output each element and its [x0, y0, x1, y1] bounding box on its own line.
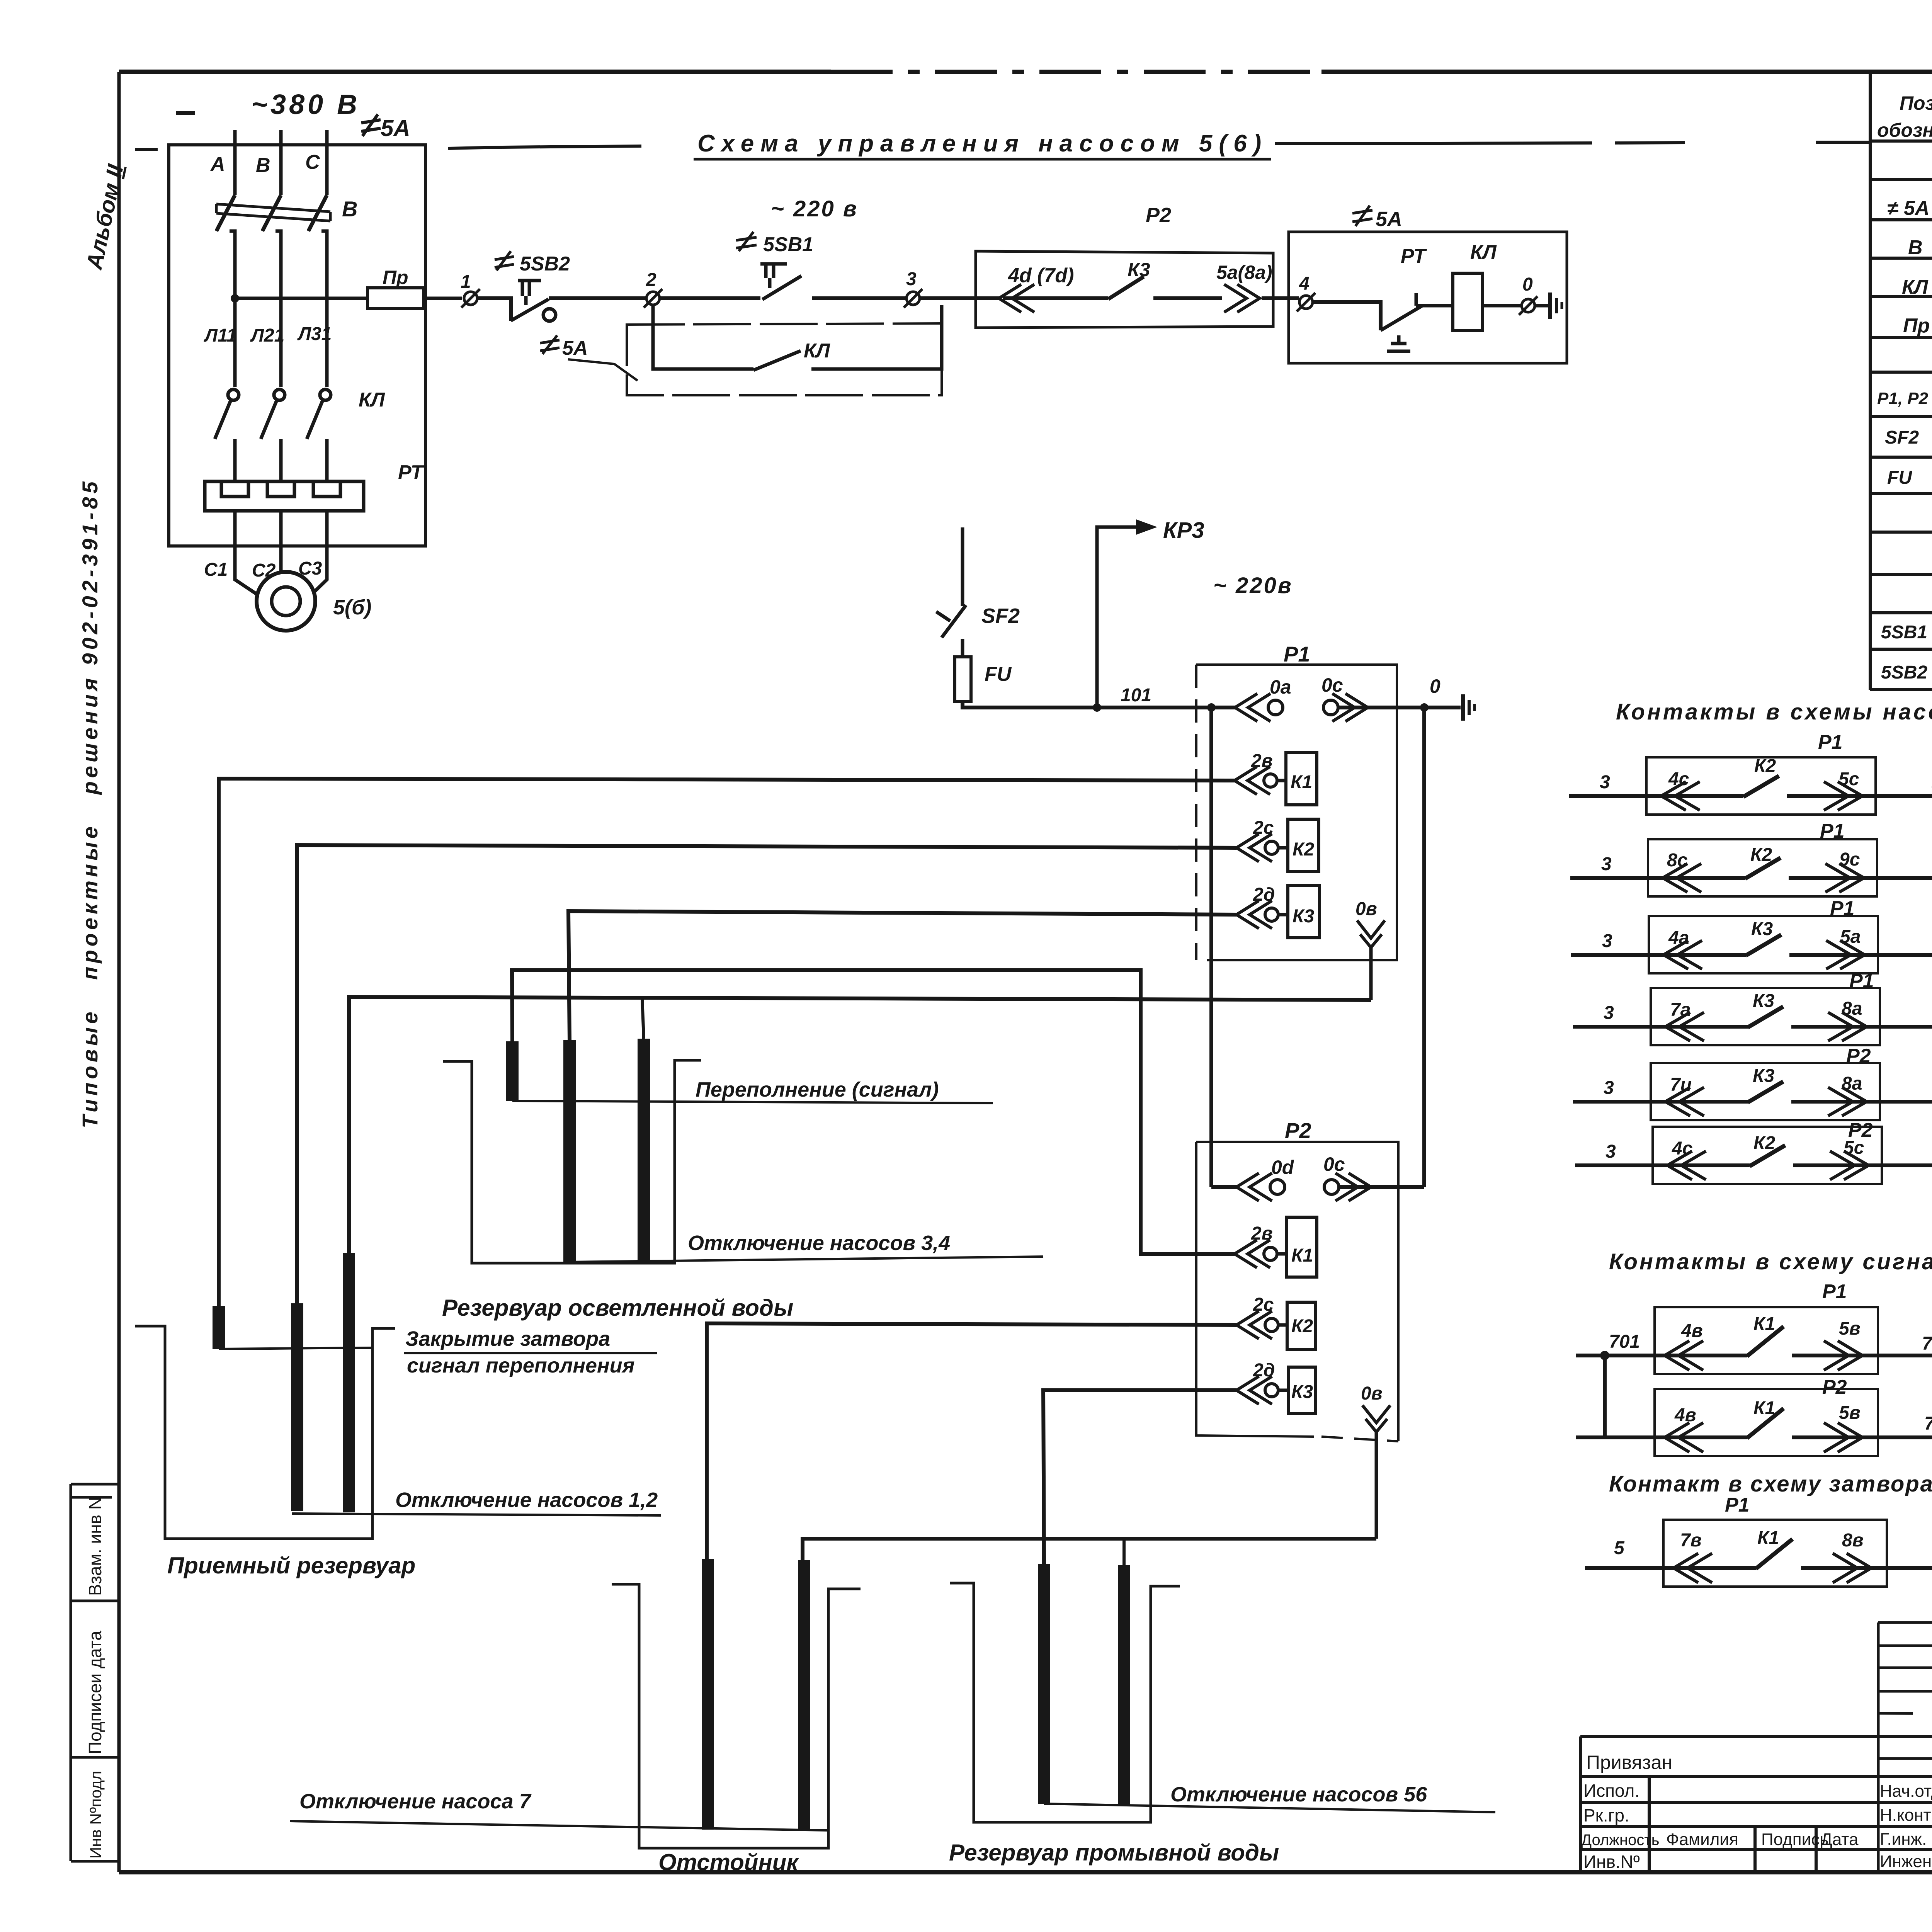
wire L5: electrodes P3,E3 to 0в(Р1) — [349, 997, 1371, 1253]
svg-text:4d (7d): 4d (7d) — [1008, 264, 1074, 287]
svg-text:К1: К1 — [1753, 1398, 1775, 1418]
svg-text:0с: 0с — [1321, 674, 1343, 696]
Р1 relay К2 — [1236, 834, 1288, 862]
row4 labels — [1604, 970, 1932, 1025]
ground (regulator) — [1463, 694, 1475, 721]
svg-text:0в: 0в — [1361, 1383, 1383, 1404]
svg-text:2в: 2в — [1251, 1223, 1273, 1244]
svg-text:Р2: Р2 — [1822, 1376, 1847, 1398]
svg-text:5в: 5в — [1839, 1403, 1861, 1423]
relay К2 (Р1) coil — [1288, 819, 1319, 871]
svg-text:сигнал переполнения: сигнал переполнения — [407, 1354, 634, 1377]
svg-text:К1: К1 — [1753, 1314, 1775, 1334]
wires РТ to motor — [235, 511, 327, 595]
svg-text:4в: 4в — [1674, 1405, 1696, 1425]
relay К2 (Р2) coil — [1287, 1302, 1316, 1349]
svg-text:Р1: Р1 — [1830, 897, 1855, 920]
svg-text:Инв Nºподл: Инв Nºподл — [87, 1771, 105, 1859]
contact row 4 (Р1 К3 7а-8а) — [1573, 988, 1932, 1045]
level line Переполнение — [512, 1101, 993, 1103]
svg-text:К3: К3 — [1753, 991, 1775, 1011]
svg-text:Переполнение (сигнал): Переполнение (сигнал) — [696, 1078, 939, 1101]
signal row 1 (Р1 К1 4в-5в) — [1576, 1307, 1932, 1374]
Р2 relay К2 — [1236, 1311, 1287, 1339]
svg-text:0d: 0d — [1271, 1156, 1294, 1178]
svg-text:3: 3 — [1605, 1141, 1616, 1162]
svg-text:5с: 5с — [1838, 769, 1859, 789]
КР3 arrow — [1097, 519, 1157, 707]
svg-text:5а: 5а — [1840, 927, 1861, 947]
wire: O1 to К2(Р2) — [707, 1323, 1236, 1559]
svg-text:0в: 0в — [1355, 899, 1377, 919]
svg-text:Инжен.: Инжен. — [1880, 1852, 1932, 1871]
#5A contactor panel box — [1289, 232, 1567, 363]
wire 0в(Р1) riser to electrode net — [1369, 947, 1373, 1000]
svg-text:3: 3 — [1601, 854, 1612, 874]
wire 701 branch down — [1605, 1355, 1655, 1437]
net 0 vertical down to Р2 — [1422, 707, 1426, 1187]
wire coil to node 0 — [1483, 304, 1521, 308]
left margin stamp boxes — [71, 1484, 119, 1861]
fuse Пр — [367, 288, 423, 309]
tank Резервуар осветленной воды — [443, 1060, 701, 1263]
svg-text:КЛ: КЛ — [359, 389, 385, 411]
phase C wire — [325, 130, 329, 195]
relay К3 (Р1) coil — [1288, 886, 1320, 938]
svg-text:Отстойник: Отстойник — [658, 1849, 799, 1875]
title block grid — [1580, 1621, 1932, 1872]
level line Отключение насоса 7 — [290, 1821, 828, 1830]
wire L4: electrode E1 to К1(Р2) — [512, 970, 1235, 1254]
svg-text:К3: К3 — [1128, 259, 1150, 281]
node 3 terminal — [904, 289, 922, 308]
svg-text:К3: К3 — [1293, 906, 1315, 927]
svg-text:~ 220 в: ~ 220 в — [771, 196, 858, 221]
electrode E1 — [506, 1041, 519, 1101]
svg-text:КЛ: КЛ — [1902, 276, 1929, 298]
svg-text:3: 3 — [1604, 1003, 1614, 1023]
svg-text:Испол.: Испол. — [1583, 1781, 1639, 1801]
Р1 contact 0с — [1323, 700, 1338, 715]
svg-text:5(б): 5(б) — [333, 596, 371, 619]
electrode E2 — [563, 1040, 576, 1262]
signal row1 labels — [1609, 1281, 1932, 1354]
svg-text:3: 3 — [906, 269, 917, 289]
svg-text:≠ 5А: ≠ 5А — [1887, 197, 1929, 219]
phase A wire — [233, 130, 237, 195]
svg-text:8а: 8а — [1842, 1073, 1862, 1094]
wire Р2 0с to net 0 — [1339, 1185, 1424, 1189]
svg-text:Р1: Р1 — [1822, 1281, 1847, 1303]
panel boundary dash-dot line left segment — [502, 146, 641, 147]
svg-text:К2: К2 — [1750, 845, 1772, 865]
svg-text:К1: К1 — [1291, 772, 1312, 793]
svg-text:3: 3 — [1600, 772, 1610, 793]
wire FU to node 101 and on to Р1 — [963, 701, 1238, 707]
P2 permissive contact box — [976, 251, 1273, 328]
level line Отключение насосов 5,6 — [1044, 1804, 1495, 1812]
switch SF2 — [936, 527, 966, 657]
svg-text:С1: С1 — [204, 560, 228, 580]
tank Приемный резервуар — [135, 1326, 395, 1539]
svg-text:7в: 7в — [1680, 1530, 1702, 1551]
svg-text:101: 101 — [1121, 685, 1151, 706]
svg-text:Р2: Р2 — [1846, 1045, 1871, 1067]
phase B wire — [279, 130, 283, 195]
row2 labels — [1601, 820, 1932, 878]
tank Отстойник — [612, 1584, 861, 1848]
svg-text:Л11: Л11 — [204, 325, 237, 346]
breaker B: three blades — [216, 195, 327, 231]
net 101 vertical down inside Р1/Р2 — [1209, 707, 1213, 1187]
svg-text:5SВ2: 5SВ2 — [1881, 662, 1927, 683]
node 0 terminal (control) — [1519, 296, 1537, 315]
svg-text:Подписеи дата: Подписеи дата — [85, 1631, 105, 1754]
Р1 contact 0в — [1357, 920, 1385, 947]
node 4 terminal — [1297, 293, 1315, 311]
svg-text:SF2: SF2 — [1885, 427, 1919, 448]
Р2 contact 0d — [1236, 1173, 1272, 1201]
svg-text:К3: К3 — [1291, 1382, 1313, 1402]
svg-text:0с: 0с — [1323, 1153, 1345, 1175]
wire L1: electrode P1 to К1(Р1) — [219, 779, 1235, 1306]
svg-text:обознач: обознач — [1877, 119, 1932, 141]
title underline — [694, 158, 1271, 161]
svg-text:Рк.гр.: Рк.гр. — [1583, 1805, 1629, 1825]
Р1 relay К1: chevron+circle — [1235, 767, 1286, 794]
label #5SB2 — [495, 251, 570, 275]
svg-text:0: 0 — [1522, 274, 1533, 295]
electrode O2 — [798, 1560, 810, 1830]
svg-text:Отключение насосов 56: Отключение насосов 56 — [1170, 1783, 1427, 1806]
Р1 contact 0а — [1235, 694, 1270, 721]
contact row 5 (Р2 К3 7и-8а) — [1573, 1063, 1932, 1120]
label #5A top of switchboard box — [361, 114, 410, 141]
svg-text:Р1: Р1 — [1725, 1494, 1750, 1516]
svg-text:733: 733 — [1924, 1413, 1932, 1434]
boundary dash left of box — [135, 148, 158, 151]
svg-text:Поз: Поз — [1900, 92, 1932, 114]
svg-text:5А: 5А — [562, 337, 588, 359]
svg-text:Р1: Р1 — [1820, 820, 1845, 842]
wire P2 box to node 4 — [1262, 296, 1299, 300]
P2 contact: left chevron — [999, 284, 1034, 312]
svg-text:8в: 8в — [1842, 1530, 1864, 1551]
svg-text:731: 731 — [1922, 1333, 1932, 1354]
svg-text:Р1, Р2: Р1, Р2 — [1877, 389, 1929, 408]
svg-text:4с: 4с — [1672, 1138, 1692, 1159]
svg-text:К2: К2 — [1753, 1133, 1776, 1153]
svg-text:2: 2 — [646, 270, 656, 290]
wire fuse to terminal 1 — [423, 297, 462, 300]
svg-text:Резервуар осветленной воды: Резервуар осветленной воды — [442, 1295, 793, 1321]
wire 0с to node 0 and ground — [1338, 706, 1461, 709]
relay К3 (Р2) coil — [1289, 1367, 1316, 1413]
svg-text:701: 701 — [1609, 1332, 1640, 1352]
svg-text:0а: 0а — [1270, 676, 1291, 698]
svg-text:4с: 4с — [1668, 769, 1689, 789]
svg-text:4а: 4а — [1668, 928, 1689, 948]
svg-text:КЛ: КЛ — [1470, 241, 1497, 264]
svg-text:0: 0 — [1430, 675, 1440, 697]
svg-text:Нач.отд: Нач.отд — [1880, 1782, 1932, 1801]
wire R2 stub — [1122, 1539, 1126, 1565]
wire node3 to P2 permissive box — [920, 296, 1001, 300]
switchboard box (Щит) — [169, 145, 425, 546]
svg-text:9с: 9с — [1839, 849, 1860, 870]
КЛ self-hold box (dash) — [627, 323, 942, 395]
svg-text:3: 3 — [1604, 1078, 1614, 1098]
svg-text:К3: К3 — [1751, 919, 1773, 939]
svg-text:Отключение насоса 7: Отключение насоса 7 — [299, 1790, 532, 1813]
revision grid — [1878, 1622, 1932, 1872]
signal row 2 (Р2 К1 4в-5в) — [1576, 1389, 1932, 1456]
relay К1 (Р1) coil — [1286, 753, 1317, 805]
svg-text:Дата: Дата — [1821, 1830, 1859, 1849]
svg-text:SF2: SF2 — [981, 604, 1020, 628]
svg-text:5с: 5с — [1844, 1138, 1864, 1158]
electrode R2 — [1118, 1565, 1130, 1804]
row1 labels — [1600, 731, 1932, 794]
wire node4 to РТ contact — [1313, 302, 1381, 330]
wire E3 stub to L5 — [642, 998, 644, 1039]
svg-text:Н.контр: Н.контр — [1880, 1806, 1932, 1825]
svg-text:Контакт в схему затвора 8: Контакт в схему затвора 8 — [1609, 1471, 1932, 1497]
svg-text:FU: FU — [985, 663, 1012, 685]
thermal relay РТ heaters — [205, 481, 364, 511]
svg-text:Инв.Nº: Инв.Nº — [1583, 1852, 1640, 1872]
svg-text:Контакты в схему сигнализации: Контакты в схему сигнализации — [1609, 1249, 1932, 1274]
contact row 1 (Р1 К2 4с-5с) — [1569, 757, 1932, 815]
row5 labels — [1604, 1045, 1932, 1100]
label #5A (contactor panel) — [1352, 206, 1402, 231]
svg-text:8с: 8с — [1667, 850, 1687, 871]
wire 5SB1 to node 3 — [812, 296, 906, 300]
junction dot КР3 branch — [1093, 703, 1101, 712]
svg-text:5: 5 — [1614, 1538, 1625, 1558]
РТ thermal contact with manual release — [1381, 293, 1447, 351]
svg-text:Резервуар промывной воды: Резервуар промывной воды — [949, 1840, 1279, 1866]
electrode P1 — [213, 1306, 225, 1349]
svg-text:К1: К1 — [1291, 1245, 1313, 1266]
svg-text:КЛ: КЛ — [804, 340, 830, 362]
svg-text:5а(8а): 5а(8а) — [1216, 262, 1272, 283]
svg-text:К2: К2 — [1291, 1316, 1313, 1337]
svg-text:С2: С2 — [252, 560, 276, 581]
gate contact row (Р1 К1 7в-8в) — [1585, 1520, 1932, 1587]
level line Отключение насосов 3,4 — [570, 1257, 1043, 1262]
signoff Нач.отд Иванченко — [1880, 1781, 1932, 1801]
Р2 regulator box — [1196, 1142, 1398, 1441]
svg-text:А: А — [210, 153, 225, 175]
Р2 contact 0с — [1324, 1180, 1339, 1194]
svg-text:К2: К2 — [1754, 756, 1776, 776]
row6 labels — [1605, 1119, 1932, 1164]
svg-text:С: С — [305, 151, 320, 173]
svg-text:~380 B: ~380 B — [251, 89, 360, 120]
svg-text:К3: К3 — [1753, 1066, 1775, 1086]
svg-text:Типовые проектные решения: Типовые проектные решения 902-02-391-85 — [78, 478, 102, 1128]
svg-text:Р1: Р1 — [1849, 970, 1874, 992]
motor 5(6) — [257, 572, 315, 631]
svg-text:3: 3 — [1602, 931, 1612, 951]
svg-text:Фамилия: Фамилия — [1666, 1830, 1738, 1849]
node dot phase A to fuse — [231, 294, 239, 303]
node 2 terminal — [644, 289, 662, 308]
svg-text:Г.инж.: Г.инж. — [1880, 1830, 1927, 1849]
svg-text:Р2: Р2 — [1285, 1118, 1311, 1143]
level line Закрытие затвора — [219, 1348, 372, 1349]
svg-text:КР3: КР3 — [1163, 518, 1204, 543]
signoff Инжен Кулешова — [1880, 1852, 1932, 1871]
svg-text:Контакты в схемы насосов: Контакты в схемы насосов — [1616, 699, 1932, 724]
wire РТ to coil — [1447, 304, 1453, 308]
svg-text:Л31: Л31 — [297, 324, 332, 344]
junction dot 701 — [1600, 1351, 1609, 1360]
Р2 relay К3 — [1236, 1376, 1289, 1404]
svg-text:5А: 5А — [1376, 207, 1402, 231]
svg-text:Р1: Р1 — [1284, 642, 1310, 666]
svg-text:7и: 7и — [1670, 1075, 1692, 1095]
svg-text:5SВ1: 5SВ1 — [763, 233, 813, 256]
svg-text:7а: 7а — [1670, 1000, 1690, 1020]
electrode E3 — [638, 1039, 650, 1261]
row3 labels — [1602, 897, 1932, 953]
P2 contact wire and blade — [1003, 277, 1222, 299]
svg-text:РТ: РТ — [398, 461, 425, 484]
panel boundary dash line right of title — [1275, 142, 1869, 144]
signoff Н.контр Рохлин — [1880, 1805, 1932, 1825]
svg-text:В: В — [256, 154, 270, 177]
relay К1 (Р2) coil — [1287, 1217, 1317, 1277]
svg-text:5SВ1: 5SВ1 — [1881, 622, 1927, 643]
Р1 regulator box — [1196, 665, 1397, 960]
electrode P2 — [291, 1303, 303, 1511]
svg-text:2в: 2в — [1251, 751, 1273, 771]
junction dot node 0 net — [1420, 703, 1429, 712]
svg-text:В: В — [342, 197, 357, 221]
svg-text:5SВ2: 5SВ2 — [520, 253, 570, 275]
wire: common 0в(Р2) net to O2 and R2 — [803, 1539, 1376, 1560]
svg-text:8а: 8а — [1842, 998, 1862, 1019]
label #5SB1 — [736, 232, 813, 256]
svg-text:Пр: Пр — [1903, 315, 1930, 337]
gate row labels — [1614, 1528, 1932, 1558]
svg-text:2д: 2д — [1253, 1360, 1275, 1381]
svg-text:Взам. инв N: Взам. инв N — [85, 1497, 105, 1596]
КЛ aux contact self-hold loop — [653, 305, 942, 370]
small dash left of 380 — [176, 111, 195, 115]
Р2 rail entry corner — [1211, 1185, 1238, 1189]
wire node0 to ground — [1535, 304, 1549, 308]
wire 5SB2 to node 2 — [549, 296, 646, 300]
table grid — [1870, 72, 1932, 690]
label Закрытие затвора / сигнал переполнения — [404, 1327, 657, 1377]
contact row 6 (Р2 К2 4с-5с) — [1575, 1127, 1932, 1184]
Р1 relay К3 — [1236, 901, 1288, 929]
svg-text:2д: 2д — [1253, 884, 1275, 905]
electrode P3 — [343, 1253, 355, 1512]
Р2 relay К1 — [1235, 1240, 1287, 1268]
svg-text:Отключение насосов 3,4: Отключение насосов 3,4 — [688, 1231, 950, 1255]
svg-text:Приемный резервуар: Приемный резервуар — [167, 1553, 415, 1578]
svg-text:Р2: Р2 — [1146, 204, 1171, 227]
КЛ coil — [1453, 273, 1483, 330]
pole wires below breaker — [230, 231, 327, 387]
svg-text:4в: 4в — [1681, 1321, 1703, 1341]
tank Резервуар промывной воды — [950, 1583, 1180, 1822]
svg-text:4: 4 — [1299, 274, 1310, 294]
svg-text:РТ: РТ — [1401, 245, 1427, 267]
button 5SB1 (NO) — [760, 264, 801, 299]
svg-text:1: 1 — [461, 272, 471, 292]
svg-text:Пр: Пр — [383, 267, 408, 288]
Р2 contact 0в — [1362, 1405, 1390, 1432]
level line Отключение насосов 1,2 — [292, 1514, 661, 1515]
breaker B trip bar — [216, 204, 330, 221]
svg-text:К1: К1 — [1757, 1528, 1779, 1548]
boundary dash right of box — [448, 147, 502, 148]
svg-text:Должность: Должность — [1581, 1832, 1660, 1849]
wire from phase A to fuse Пр — [235, 297, 367, 300]
fuse FU — [955, 657, 971, 701]
svg-text:Привязан: Привязан — [1586, 1752, 1672, 1773]
contactor КЛ main contacts — [215, 389, 331, 481]
svg-text:Отключение насосов 1,2: Отключение насосов 1,2 — [395, 1488, 658, 1512]
P2 contact: right chevron — [1224, 284, 1260, 312]
wire terminal1 to 5SB2 — [477, 298, 511, 321]
svg-text:Подпись: Подпись — [1761, 1830, 1828, 1849]
svg-text:Закрытие затвора: Закрытие затвора — [405, 1327, 610, 1350]
signoff Гл.инж Бреслов — [1880, 1830, 1932, 1849]
junction dot Р1 rail entry — [1207, 703, 1216, 712]
svg-text:~ 220в: ~ 220в — [1213, 573, 1293, 598]
svg-text:5в: 5в — [1839, 1318, 1861, 1339]
terminal 1 — [461, 289, 480, 308]
svg-text:Схема управления насосом 5(6: Схема управления насосом 5(6) — [697, 130, 1268, 157]
contact row 2 (Р1 К2 8с-9с) — [1570, 839, 1932, 896]
signal row2 labels — [1674, 1376, 1932, 1434]
svg-text:В: В — [1908, 236, 1923, 259]
wire: R1 to К3(Р2) — [1043, 1390, 1236, 1564]
wire L3: electrode E2 to К3(Р1) — [568, 911, 1236, 1040]
electrode O1 — [702, 1559, 714, 1830]
svg-text:Р1: Р1 — [1818, 731, 1843, 753]
svg-text:2с: 2с — [1253, 1294, 1274, 1315]
svg-text:5А: 5А — [381, 115, 410, 141]
wire 0в(Р2) down — [1375, 1432, 1378, 1539]
contact row 3 (Р1 К3 4а-5а) — [1571, 916, 1932, 973]
wire L2: electrode P2 to К2(Р1) — [297, 845, 1236, 1303]
button 5SB2 (NC with latch) — [511, 281, 556, 321]
wire node2 to 5SB1 — [660, 296, 760, 300]
ground (control) — [1550, 293, 1562, 319]
svg-text:2с: 2с — [1253, 818, 1274, 838]
svg-text:FU: FU — [1887, 468, 1912, 488]
svg-text:Л21: Л21 — [250, 325, 284, 346]
label #5A leader (aux box) — [540, 335, 638, 381]
svg-text:К2: К2 — [1293, 839, 1315, 860]
electrode R1 — [1038, 1564, 1050, 1804]
